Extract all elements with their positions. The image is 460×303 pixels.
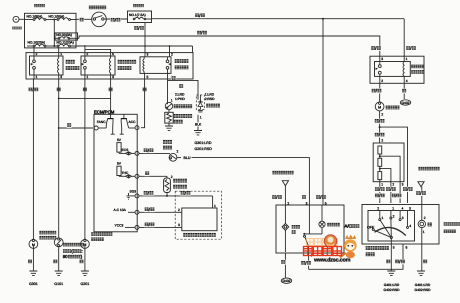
rotary fan switch [367, 211, 411, 245]
svg-text:90: 90 [63, 254, 68, 259]
fuse NO.1 80A [27, 15, 46, 21]
svg-text:A.C 10A: A.C 10A [114, 208, 127, 212]
wire fan switch to ground [53, 246, 63, 286]
svg-text:2: 2 [287, 201, 289, 205]
svg-text:1: 1 [392, 206, 394, 210]
wire relay to blower motor [379, 83, 381, 102]
condenser fan motor [81, 232, 113, 248]
fuse NO.1 7.5A [128, 11, 152, 23]
svg-text:G101: G101 [54, 282, 63, 286]
transistor Q1 [98, 114, 115, 134]
wire colors under relays [28, 87, 39, 92]
svg-text:1: 1 [171, 98, 173, 102]
wire fan switch pin5 to ground [382, 244, 400, 292]
wire labels on AC box top [301, 195, 306, 200]
node YCC3 [115, 224, 140, 230]
thermal protector [165, 98, 192, 109]
wire green to FANC [59, 127, 93, 129]
relay enclosure [26, 53, 193, 79]
svg-text:NO.1(7.5A): NO.1(7.5A) [129, 13, 146, 17]
A/C switch contact [301, 205, 322, 269]
svg-text:5: 5 [147, 75, 149, 79]
blower resistor box [373, 143, 404, 182]
node THC [119, 171, 139, 179]
fuse NO.3 40A [54, 33, 77, 40]
ground diode [194, 115, 202, 135]
wire fan switch pin6 to A/C switch [309, 244, 408, 269]
relay condenser fan [81, 56, 115, 75]
fuse NO.10 20A [28, 41, 46, 47]
svg-text:www.dzsc.com: www.dzsc.com [313, 258, 351, 264]
temp control dial box [182, 208, 217, 237]
wire branch around resistor [380, 127, 408, 203]
svg-text:G402: G402 [401, 101, 409, 105]
svg-text:1: 1 [36, 75, 38, 79]
svg-text:2: 2 [424, 216, 426, 220]
ground compressor clutch [165, 123, 173, 130]
svg-text:2: 2 [393, 214, 395, 218]
radiator fan motor [29, 231, 56, 249]
fuse box 2 label [133, 4, 144, 7]
wire branch to diode [168, 80, 199, 99]
svg-text:1: 1 [381, 183, 383, 187]
wire A/C green/yellow [139, 207, 182, 213]
wires resistor to fan switch [379, 182, 381, 203]
indicator light [282, 205, 300, 252]
svg-text:FANC: FANC [97, 120, 106, 124]
wire indicator to G402 [281, 253, 292, 283]
blower relay [370, 56, 424, 83]
svg-text:G402:RSD: G402:RSD [415, 288, 432, 292]
wire bus to display [322, 19, 324, 205]
taillight relay arrow left [272, 171, 294, 205]
svg-text:2: 2 [392, 183, 394, 187]
svg-text:2: 2 [171, 53, 173, 57]
dashed enclosure temp dial [175, 191, 221, 239]
svg-text:BLU: BLU [184, 156, 191, 160]
diode box [196, 95, 220, 112]
svg-text:1: 1 [406, 57, 408, 61]
svg-text:2: 2 [381, 79, 383, 83]
svg-text:5: 5 [393, 246, 395, 250]
lamp [418, 216, 432, 234]
5V supply THC [117, 162, 122, 177]
wire white/blue bus (40A fuse to blower relay) [78, 37, 80, 39]
ECM/PCM [94, 110, 137, 232]
ignition switch [84, 6, 107, 27]
svg-text:M: M [378, 105, 381, 109]
fuse box label [34, 4, 45, 7]
wire junction down [53, 20, 55, 47]
wire BLU to A/C switch [184, 156, 310, 205]
svg-text:2: 2 [177, 150, 179, 154]
fuse NO.1 50A [49, 15, 71, 21]
svg-text:3: 3 [402, 183, 404, 187]
svg-text:5: 5 [325, 201, 327, 205]
wire green bridge [59, 97, 111, 99]
relay radiator fan [30, 56, 64, 75]
pressure switch [163, 140, 181, 161]
svg-text:G201: G201 [81, 282, 90, 286]
compressor clutch [165, 110, 192, 124]
wire YCC3 red/white [139, 222, 182, 228]
svg-text:G402: G402 [282, 279, 290, 283]
svg-text:2: 2 [377, 206, 379, 210]
svg-text:G301: G301 [29, 282, 38, 286]
svg-text:G401:LRD: G401:LRD [415, 283, 431, 287]
svg-text:2: 2 [381, 112, 383, 116]
watermark [304, 234, 357, 263]
display unit [319, 205, 340, 234]
svg-text:1: 1 [382, 216, 384, 220]
wire white from fusebox to ignition [76, 18, 84, 20]
wire radiator relay coil down [58, 75, 60, 238]
radiator fan switch [54, 238, 84, 259]
svg-text:THC: THC [122, 171, 129, 175]
svg-text:3: 3 [60, 75, 62, 79]
wire motor2 to ground [79, 246, 89, 286]
svg-text:4: 4 [409, 224, 411, 228]
heater fan switch box [362, 205, 439, 245]
wire condenser fan motor feed [84, 75, 86, 239]
wire ECS to pressure switch [139, 152, 170, 154]
svg-text:ECS: ECS [122, 148, 130, 152]
relay compressor [140, 57, 171, 74]
svg-text:2:RSD: 2:RSD [205, 97, 215, 101]
svg-text:2: 2 [381, 139, 383, 143]
svg-text:1:PHD: 1:PHD [175, 97, 185, 101]
evaporator thermistor [164, 175, 187, 196]
node 7.5A fuse output [144, 23, 146, 57]
pin ACC [129, 120, 140, 130]
svg-text:3: 3 [147, 53, 149, 57]
svg-text:3: 3 [306, 201, 308, 205]
node SG3 [126, 189, 139, 199]
wire radiator fan motor feed [33, 75, 35, 79]
svg-text:G402:RSD: G402:RSD [384, 288, 401, 292]
svg-text:4: 4 [402, 206, 404, 210]
wire red compressor coil to ACC [141, 73, 145, 127]
svg-text:A/C: A/C [345, 224, 352, 229]
transistor Q2 [120, 114, 135, 134]
wire 20A row to compressor relay [27, 45, 33, 47]
wire black/yellow bus (ignition to blower relay) [106, 18, 127, 20]
wire corner into relay enclosure [192, 46, 194, 53]
wire battery to fuse box [19, 18, 25, 20]
svg-text:NO.3(40A): NO.3(40A) [56, 33, 72, 37]
wire relay to G402 [400, 83, 410, 105]
wire THC to thermistor [139, 175, 167, 177]
svg-text:NO.1(80A): NO.1(80A) [27, 15, 43, 19]
svg-text:G401:LRD: G401:LRD [384, 283, 400, 287]
connector marks [126, 152, 132, 155]
svg-text:1: 1 [423, 230, 425, 234]
svg-text:G201:RSD: G201:RSD [195, 147, 213, 151]
wire condenser relay coil down [110, 75, 112, 114]
heater panel label [444, 222, 460, 225]
5V supply ECS [117, 138, 122, 153]
wire fuse row [25, 19, 34, 21]
svg-text:3: 3 [381, 57, 383, 61]
svg-text:YCC3: YCC3 [115, 224, 124, 228]
svg-text:4: 4 [406, 79, 408, 83]
wire motor1 to ground [27, 246, 37, 286]
wire motor down [374, 111, 385, 143]
svg-text:SG3: SG3 [130, 189, 137, 193]
wire lamp to ground [415, 228, 432, 293]
node ECS [119, 148, 139, 156]
pin FANC [94, 120, 106, 130]
node A/C [114, 208, 140, 214]
wire SG3 brown/white [139, 190, 216, 208]
svg-text:BLK: BLK [195, 122, 202, 126]
svg-text:1: 1 [200, 116, 202, 120]
svg-text::: : [81, 249, 82, 254]
battery [12, 16, 22, 29]
svg-text:3: 3 [409, 206, 411, 210]
taillight relay arrow right [416, 167, 440, 220]
wire drops to relay pins [33, 47, 35, 56]
node fuse junction [53, 19, 55, 21]
svg-text:G301:LRD: G301:LRD [195, 141, 212, 145]
wire corner down to blower relay right pin [403, 19, 405, 57]
svg-text:2: 2 [171, 175, 173, 179]
fuse box [25, 13, 77, 48]
svg-text:3: 3 [178, 223, 180, 227]
svg-text:ACC: ACC [129, 120, 137, 124]
A/C switch box [276, 205, 344, 253]
svg-text:6: 6 [406, 246, 408, 250]
svg-text:2: 2 [178, 208, 180, 212]
svg-text:1: 1 [86, 75, 88, 79]
blower motor [375, 102, 399, 111]
fuse NO.11 20A [57, 41, 74, 47]
svg-text:3: 3 [402, 216, 404, 220]
svg-text:3: 3 [112, 75, 114, 79]
wire compressor relay pin1 down [167, 73, 169, 104]
